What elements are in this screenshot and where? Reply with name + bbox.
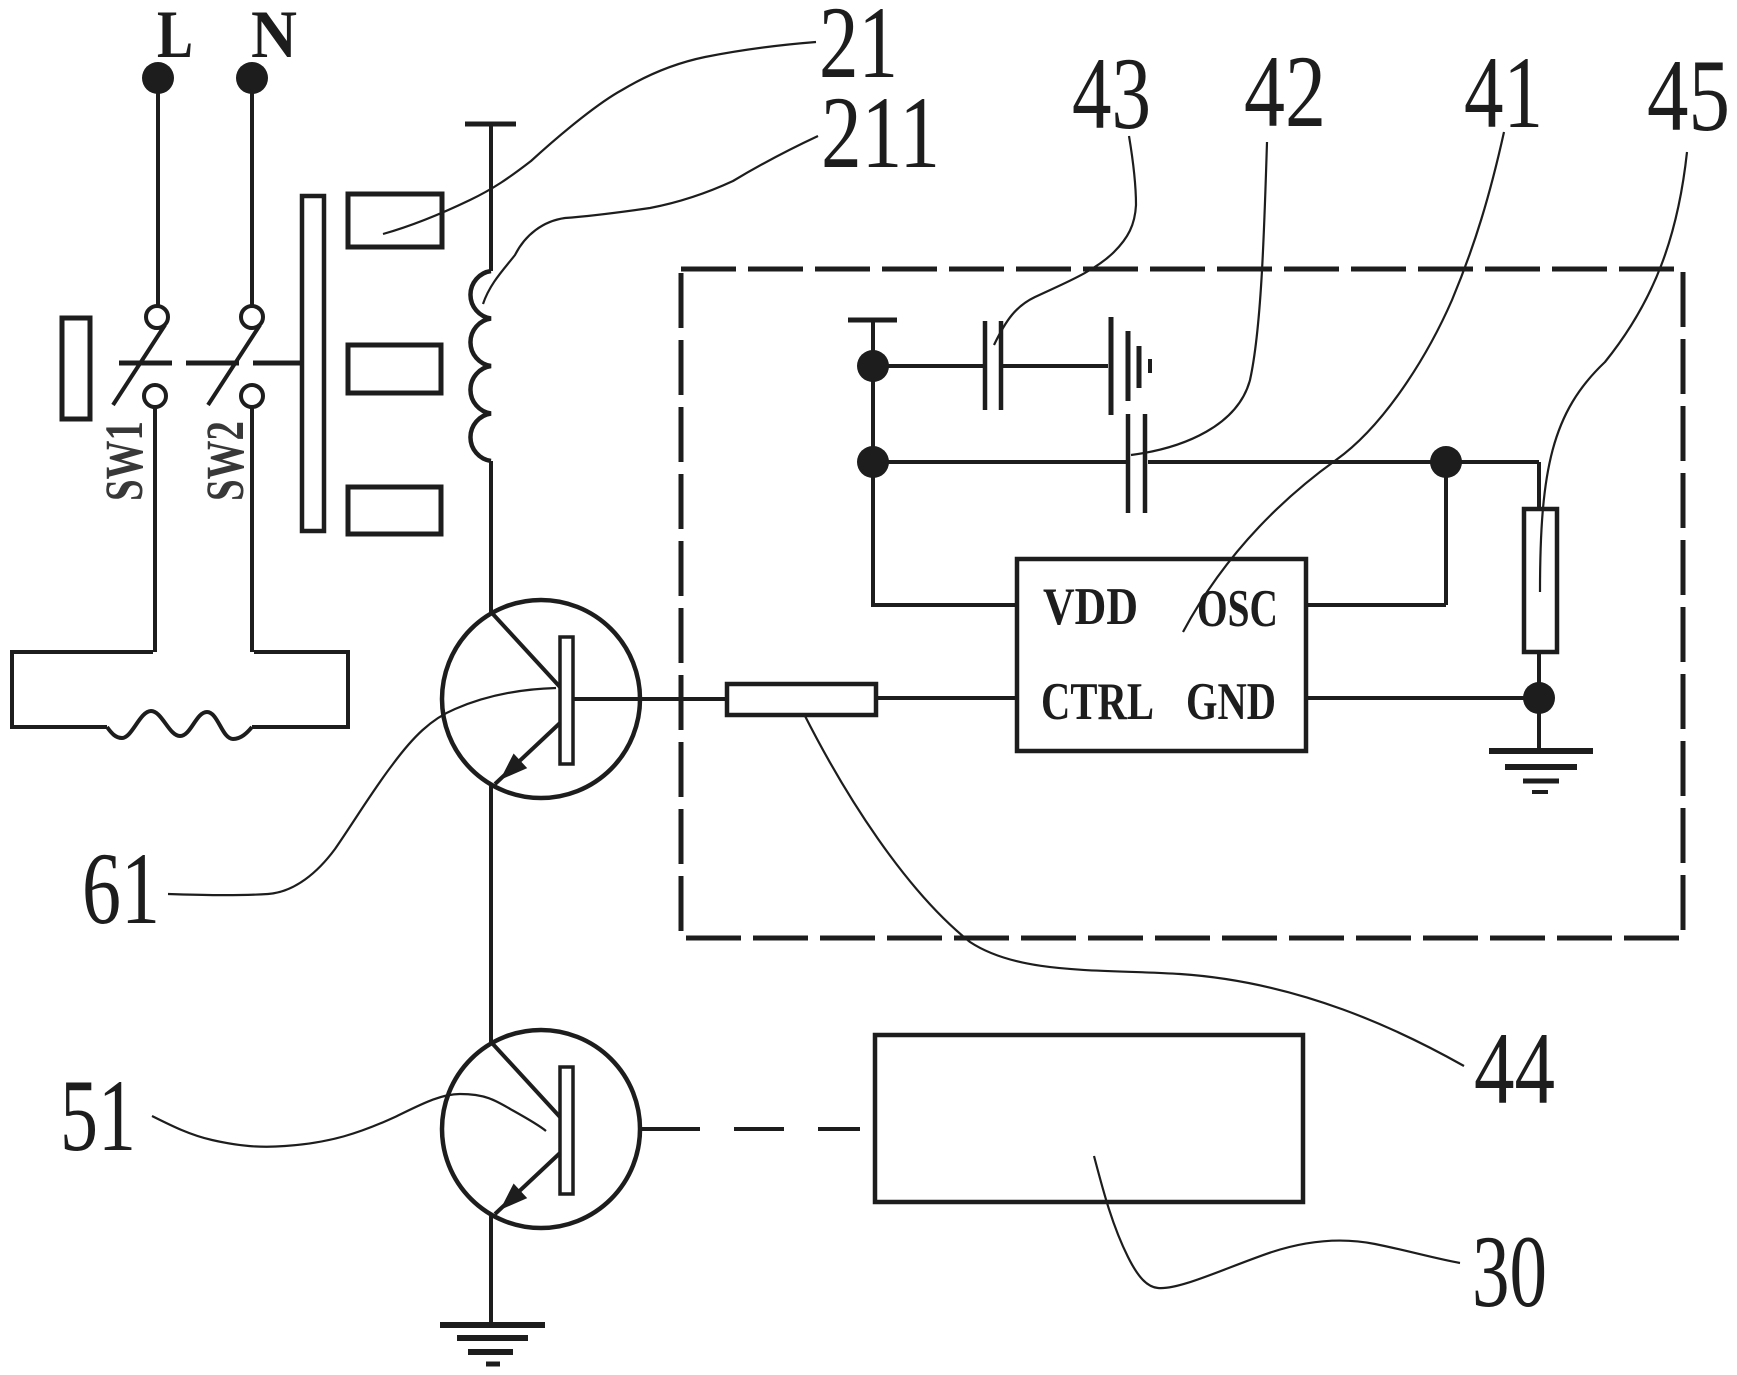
wire row B right xyxy=(1148,460,1539,464)
svg-text:SW1: SW1 xyxy=(94,421,154,501)
capacitor 43 xyxy=(985,321,1001,410)
wire N down xyxy=(250,90,254,308)
leader 211 xyxy=(483,136,818,304)
wire SW2 down xyxy=(250,407,254,652)
wire row A xyxy=(873,364,985,368)
leader 21 xyxy=(383,42,816,234)
heating element zigzag xyxy=(107,711,252,739)
svg-text:211: 211 xyxy=(821,76,940,190)
leader 43 xyxy=(994,136,1136,345)
leader 51 xyxy=(152,1094,546,1147)
leader 44 xyxy=(804,714,1464,1066)
svg-text:42: 42 xyxy=(1244,35,1326,149)
box 30 xyxy=(875,1035,1303,1202)
mechanical link dashed wire xyxy=(119,361,302,366)
wire coil to Q61 xyxy=(489,461,493,613)
resistor 45 xyxy=(1524,509,1557,652)
svg-text:51: 51 xyxy=(60,1059,136,1173)
ground symbol bottom xyxy=(440,1325,545,1364)
switch SW1 xyxy=(113,306,168,407)
svg-text:GND: GND xyxy=(1186,673,1276,731)
winding 21 bottom rect xyxy=(348,487,441,534)
junction dot row A xyxy=(857,350,889,382)
svg-text:61: 61 xyxy=(82,832,160,946)
svg-text:44: 44 xyxy=(1474,1012,1555,1126)
VDD rail terminal T xyxy=(848,320,897,607)
svg-text:L: L xyxy=(157,0,193,72)
wire resistor 44 to CTRL xyxy=(876,696,1017,700)
switch SW2 xyxy=(208,306,263,407)
ground symbol IC xyxy=(1489,751,1593,792)
transistor 51 xyxy=(442,1030,640,1228)
wire GND pin xyxy=(1306,696,1539,700)
coil top terminal T xyxy=(465,124,516,271)
svg-text:CTRL: CTRL xyxy=(1041,673,1154,731)
svg-text:VDD: VDD xyxy=(1043,578,1138,636)
wire OSC xyxy=(1306,603,1446,607)
svg-text:45: 45 xyxy=(1647,39,1730,153)
terminal dot L xyxy=(142,62,174,94)
wire row B left xyxy=(873,460,1126,464)
leader 41 xyxy=(1183,132,1504,632)
winding 21 top rect xyxy=(348,194,442,247)
base wire Q61 to resistor 44 xyxy=(573,697,727,701)
IC 41 box xyxy=(1017,559,1306,751)
junction dot GND node xyxy=(1523,682,1555,714)
transistor 61 xyxy=(442,600,640,798)
junction dot row B xyxy=(857,446,889,478)
svg-text:30: 30 xyxy=(1472,1215,1547,1329)
dashed control box xyxy=(681,269,1683,938)
wire GND node down xyxy=(1537,698,1541,750)
wire cap43 to ground xyxy=(1001,364,1108,368)
transformer core bar xyxy=(302,196,324,531)
wire Q51 to ground xyxy=(489,1216,493,1324)
wire to resistor 45 xyxy=(1537,462,1541,509)
leader 45 xyxy=(1540,152,1687,592)
wire L down xyxy=(156,90,160,308)
inductor coil 211 xyxy=(470,271,491,461)
rotated ground for cap43 xyxy=(1111,317,1150,415)
resistor 44 xyxy=(727,684,876,715)
leader 30 xyxy=(1094,1156,1460,1288)
svg-text:43: 43 xyxy=(1072,37,1151,151)
capacitor 42 xyxy=(1128,414,1145,513)
wire resistor 45 down xyxy=(1537,652,1541,700)
svg-text:N: N xyxy=(251,0,297,72)
terminal dot N xyxy=(236,62,268,94)
heating element outline xyxy=(12,652,348,727)
actuator rectangle xyxy=(62,318,90,419)
leader 61 xyxy=(168,688,556,895)
leader 42 xyxy=(1131,142,1267,455)
wire Q61 to Q51 xyxy=(489,786,493,1042)
wire VDD xyxy=(873,603,1017,607)
wire SW1 down xyxy=(153,407,157,652)
junction dot OSC node xyxy=(1430,446,1462,478)
winding 21 middle rect xyxy=(348,345,441,393)
wire OSC node down xyxy=(1444,462,1448,605)
dash-dot link Q51 to box 30 xyxy=(641,1127,860,1131)
svg-text:SW2: SW2 xyxy=(195,421,255,501)
